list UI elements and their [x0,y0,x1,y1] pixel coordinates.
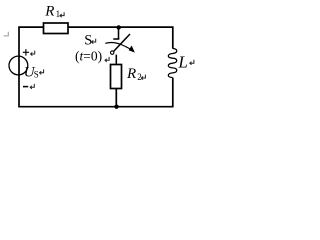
svg-text:2: 2 [137,72,142,82]
return mark after (t=0) [105,57,109,62]
plus sign [23,49,29,56]
switch arrowhead [129,46,135,53]
svg-text:R: R [126,66,136,82]
switch S stub [118,28,120,39]
svg-text:R: R [44,3,54,19]
return mark after US [40,69,44,74]
svg-text:1: 1 [56,9,61,19]
svg-text:S: S [34,70,39,80]
voltage source US circle [9,56,28,75]
svg-text:S: S [84,33,92,49]
stray return mark at left edge [4,32,9,36]
svg-text:L: L [177,53,187,72]
minus sign [23,86,28,88]
wire right bottom [172,78,174,108]
node dot bottom [114,105,118,109]
switch pivot circle [111,51,114,54]
return mark after plus [31,51,35,56]
inductor L coil [168,49,176,78]
return mark after R2 [141,75,145,80]
wire left vertical [18,27,20,107]
wire top right segment [68,26,173,28]
return mark after S [92,39,96,44]
return mark after R1 [60,12,64,17]
resistor R2 [111,65,122,89]
switch swing arc [105,43,131,50]
wire R2 to bottom [115,89,117,107]
return mark after minus [30,84,34,89]
switch blade [114,34,130,51]
return mark after L [190,60,194,65]
node dot top [117,25,121,29]
wire switch to R2 [115,55,117,65]
wire bottom [18,106,173,108]
wire top left segment [18,26,43,28]
switch fixed contact bar [113,38,119,40]
wire right top [172,26,174,48]
svg-text:(t=0): (t=0) [75,48,102,63]
resistor R1 [44,23,69,34]
